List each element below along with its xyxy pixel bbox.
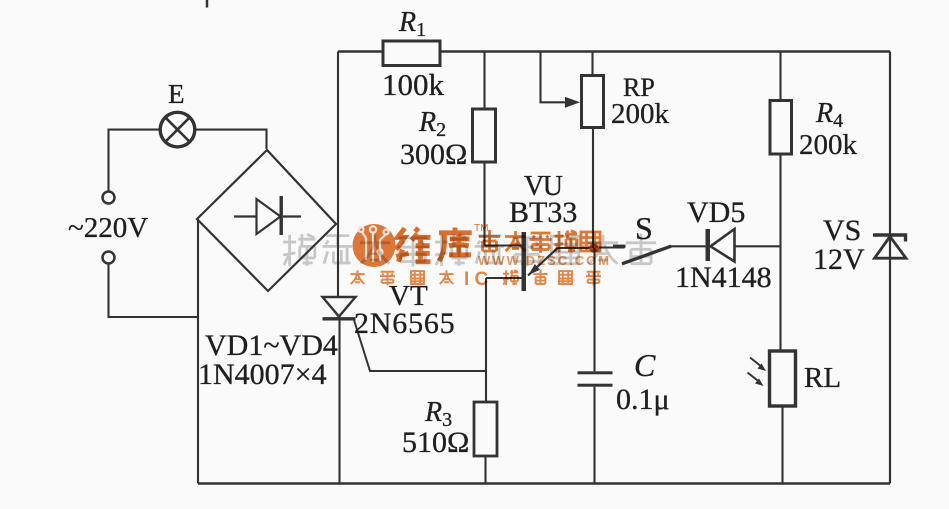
weiku big characters	[396, 228, 472, 262]
wire base1 down to R3	[485, 278, 487, 402]
svg-text:E: E	[168, 79, 185, 109]
svg-text:100k: 100k	[382, 67, 445, 102]
top edge artifact tick	[206, 0, 209, 8]
svg-text:I C: I C	[464, 269, 489, 290]
wire R2 bottom lead	[483, 162, 485, 246]
svg-text:0.1μ: 0.1μ	[616, 383, 670, 416]
slogan row	[350, 270, 453, 285]
photoresistor RL	[748, 351, 796, 406]
UJT VU BT33 bar	[522, 232, 527, 291]
potentiometer RP	[541, 52, 604, 249]
svg-text:VD5: VD5	[687, 196, 745, 229]
wire emitter to node	[558, 247, 595, 249]
wire bottom rail	[198, 482, 890, 484]
zener diode VS	[873, 235, 906, 258]
svg-text:12V: 12V	[813, 243, 865, 276]
UJT emitter with arrow	[528, 248, 558, 276]
terminal lower	[103, 252, 115, 264]
wire RL bottom lead	[781, 406, 783, 484]
logo disc	[353, 224, 396, 267]
wire R3 bottom lead	[484, 456, 486, 484]
wire R2 top lead	[483, 52, 485, 110]
wire lower terminal to left rail	[109, 264, 199, 317]
svg-text:1N4148: 1N4148	[675, 261, 772, 294]
wire switch to VD5	[669, 245, 706, 247]
wire R4 to RL	[779, 155, 781, 352]
wire VT cathode down	[338, 319, 340, 484]
svg-text:TM: TM	[474, 223, 488, 234]
wire VD5 to R4 branch	[735, 245, 782, 247]
svg-text:WWW.DZSC.COM: WWW.DZSC.COM	[478, 253, 611, 268]
wire left vertical from bridge to bottom rail	[197, 219, 199, 484]
wire R3 vertical and resistor R3	[474, 402, 497, 456]
lamp E	[160, 112, 195, 147]
svg-text:200k: 200k	[799, 129, 858, 161]
bridge rectifier VD1~VD4	[197, 150, 336, 291]
svg-text:BT33: BT33	[509, 196, 577, 229]
orange watermark logo group	[350, 223, 611, 290]
svg-text:S: S	[635, 210, 653, 246]
capacitor C	[578, 248, 613, 484]
resistor R4	[770, 101, 792, 155]
svg-text:2N6565: 2N6565	[354, 307, 455, 340]
switch S	[599, 246, 671, 264]
diode VD5	[706, 229, 735, 262]
svg-text:1N4007×4: 1N4007×4	[198, 358, 327, 391]
junction node dot	[589, 243, 599, 253]
wire main anode branch vertical	[337, 52, 339, 298]
svg-text:200k: 200k	[611, 98, 670, 130]
resistor R1	[383, 41, 440, 66]
wire right vertical	[889, 52, 891, 484]
wire UJT base2	[485, 244, 522, 246]
svg-text:C: C	[634, 347, 656, 383]
terminal upper	[103, 192, 115, 204]
svg-text:~220V: ~220V	[68, 212, 148, 244]
dianzi shichang wang characters	[479, 230, 600, 253]
svg-text:300Ω: 300Ω	[400, 138, 467, 171]
gray watermark company name	[283, 233, 656, 266]
wire UJT base1	[486, 277, 522, 279]
wire R4 top lead	[779, 52, 781, 101]
thyristor VT	[323, 297, 487, 371]
wire lamp right to bridge top	[194, 130, 266, 149]
wire top rail	[338, 50, 890, 52]
svg-text:RL: RL	[804, 362, 841, 394]
wire lamp left to upper terminal	[109, 130, 161, 191]
resistor R2	[473, 109, 496, 162]
svg-text:510Ω: 510Ω	[402, 426, 469, 459]
